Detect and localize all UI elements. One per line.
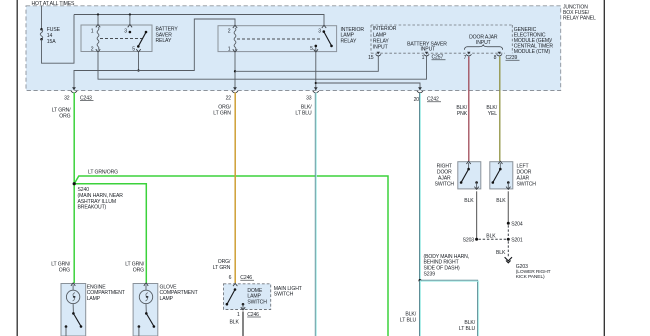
svg-text:15: 15 — [368, 55, 374, 61]
svg-text:LT GRN/ORG: LT GRN/ORG — [88, 169, 118, 175]
K1 pin 1 — [96, 25, 100, 28]
svg-text:BLK: BLK — [464, 198, 474, 204]
svg-text:1: 1 — [422, 55, 425, 61]
K1 pin 2 — [96, 49, 100, 52]
svg-text:INTERIOR: INTERIOR — [373, 26, 397, 32]
svg-text:BLK: BLK — [496, 198, 506, 204]
svg-text:LAMP: LAMP — [160, 296, 174, 302]
svg-text:S203: S203 — [463, 237, 475, 243]
svg-text:INPUT: INPUT — [373, 45, 388, 51]
junction dot: bus / K1 pin 3 — [129, 13, 131, 15]
wire: K1 pin 5 down — [138, 52, 140, 71]
left door ajar switch top pin — [498, 161, 502, 164]
junction dot: bus / K1 pin 1 — [97, 13, 99, 15]
svg-text:(LOWER RIGHT: (LOWER RIGHT — [516, 269, 551, 275]
svg-text:S204: S204 — [511, 221, 523, 227]
svg-text:MODULE (CTM): MODULE (CTM) — [514, 49, 551, 55]
svg-text:ORG: ORG — [59, 113, 70, 119]
svg-text:3: 3 — [124, 28, 127, 34]
wire: ORG/LT GRN from connector 22 to dome lamp switch — [234, 93, 236, 284]
connector pin 22 — [233, 87, 237, 90]
K2 switch blade — [324, 32, 332, 46]
K1 pin 3 — [128, 25, 132, 28]
GEM pin 1 — [425, 52, 428, 55]
svg-text:BLK: BLK — [230, 319, 240, 325]
svg-text:5: 5 — [310, 46, 313, 52]
K2 pin 2 — [233, 25, 237, 28]
wire: S240 branch to interior lamps feed (LT GRN/ORG) — [74, 176, 388, 336]
svg-text:SWITCH: SWITCH — [247, 299, 267, 305]
svg-text:PNK: PNK — [457, 111, 468, 117]
relay K1 battery saver relay box — [81, 25, 152, 52]
GEM pin 7 — [467, 52, 470, 55]
svg-text:RELAY: RELAY — [373, 38, 389, 44]
svg-text:1: 1 — [91, 28, 94, 34]
GEM boundary dashed bottom — [371, 52, 505, 54]
left door ajar switch contacts — [499, 163, 501, 169]
GEM boundary dashed right — [511, 25, 513, 53]
svg-text:LT GRN: LT GRN — [213, 265, 231, 271]
GEM pin 15 — [377, 52, 380, 55]
K2 pin 1 — [233, 49, 237, 52]
splice S204 — [507, 222, 510, 225]
K1 pin 5 — [136, 49, 140, 52]
svg-text:15A: 15A — [47, 39, 56, 45]
svg-text:22: 22 — [226, 95, 232, 101]
wire: hot feed to fuse 14 — [41, 6, 43, 30]
wire: BLK/PNK from GEM pin 7 to right door ajar switch — [468, 57, 470, 162]
svg-text:2: 2 — [91, 46, 94, 52]
left door ajar switch bottom pin — [506, 187, 510, 190]
svg-text:SWITCH: SWITCH — [517, 181, 537, 187]
splice S239 — [419, 279, 422, 282]
svg-text:33: 33 — [306, 95, 312, 101]
svg-text:8: 8 — [494, 55, 497, 61]
svg-text:2: 2 — [228, 29, 231, 35]
svg-text:SWITCH: SWITCH — [435, 181, 455, 187]
wire: BLK left switch to S204 — [507, 191, 509, 222]
glove compartment lamp box — [133, 284, 158, 336]
svg-text:20: 20 — [414, 97, 420, 103]
splice S201 — [507, 238, 510, 241]
connector pin 20 (C242) — [418, 87, 422, 90]
K1 switch blade — [138, 32, 146, 46]
wire: K1 pin 2 to GEM battery saver input (pin 1 C257) — [98, 52, 427, 80]
wire: BLK/LT BLU from connector 33 — [314, 93, 316, 336]
wire: S201 to ground G203 (dashed BLK) — [507, 241, 509, 257]
wire: BLK from dome lamp switch — [242, 312, 244, 336]
svg-text:LAMP: LAMP — [373, 32, 387, 38]
svg-text:KICK PANEL): KICK PANEL) — [516, 274, 545, 280]
K2 pin 3 — [322, 25, 326, 28]
junction box panel (light blue area) — [26, 6, 561, 91]
svg-text:14: 14 — [47, 33, 53, 39]
svg-text:YEL: YEL — [488, 111, 498, 117]
right door ajar switch box — [458, 162, 481, 189]
wire: S239 right branch (BLK/LT BLU) — [420, 280, 478, 336]
engine lamp switch — [72, 304, 74, 313]
junction dot: K1 pin5 / battery saver output net — [137, 69, 139, 71]
junction dot: K2 pin1 / GEM pin15 net — [234, 70, 236, 72]
wire: battery saver output net (conn 32 to K2 pin 2) — [74, 19, 235, 90]
K1 fixed contact (pin 3) — [129, 31, 132, 34]
svg-text:32: 32 — [64, 95, 70, 101]
glove lamp switch — [145, 304, 147, 313]
wire: fuse output to hot bus — [42, 15, 75, 64]
wire: S203 to S201 (dashed) — [479, 238, 507, 240]
svg-text:RELAY PANEL: RELAY PANEL — [563, 15, 596, 21]
wire: S239 down (BLK/LT BLU) — [419, 281, 421, 336]
dome lamp switch SW1 — [234, 288, 237, 291]
pin 1 (C246) — [241, 307, 245, 310]
svg-text:G203: G203 — [516, 264, 528, 270]
relay K2 interior lamp relay box — [218, 26, 337, 52]
right door ajar switch bottom pin — [474, 187, 478, 190]
svg-text:3: 3 — [318, 29, 321, 35]
wire: bus to K1 pin 3 — [129, 15, 131, 26]
engine lamp pin — [71, 283, 75, 286]
K1 linkage (dashed) — [100, 38, 143, 40]
door ajar input bracket — [465, 45, 503, 50]
engine compartment lamp box — [61, 284, 86, 336]
page border left — [16, 0, 18, 336]
svg-text:SWITCH: SWITCH — [274, 292, 294, 298]
svg-text:BLK: BLK — [486, 234, 496, 240]
svg-text:ORG: ORG — [133, 268, 144, 274]
svg-text:LT GRN: LT GRN — [213, 110, 231, 116]
svg-text:LT BLU: LT BLU — [459, 326, 476, 332]
junction dot: K2 pin5 / connector 20 net — [315, 82, 317, 84]
svg-text:RELAY: RELAY — [156, 38, 172, 44]
K1 coil — [97, 27, 99, 49]
GEM boundary dashed top — [371, 24, 512, 26]
connector pin 33 — [314, 87, 318, 90]
pin 6 (C246) — [233, 283, 237, 286]
svg-text:RELAY: RELAY — [341, 38, 357, 44]
svg-text:BREAKOUT): BREAKOUT) — [78, 205, 107, 211]
svg-text:1: 1 — [237, 312, 240, 318]
wire: hot bus to relay K2 pin 3 — [74, 15, 324, 26]
svg-text:7: 7 — [464, 55, 467, 61]
splice S203 — [475, 238, 478, 241]
svg-text:ORG: ORG — [59, 268, 70, 274]
svg-text:6: 6 — [229, 275, 232, 281]
GEM boundary dashed left — [370, 25, 372, 53]
GEM pin 8 — [498, 52, 501, 55]
main light switch dashed box — [224, 284, 271, 310]
wire: K2 pin5 net to connector 20 — [316, 83, 420, 90]
wire: BLK/YEL from GEM pin 8 to left door ajar switch — [499, 57, 501, 162]
wire: bus to K1 pin 1 — [97, 15, 99, 26]
connector pin 32 (C243) — [72, 87, 76, 90]
svg-text:LT BLU: LT BLU — [400, 318, 417, 324]
svg-text:S239: S239 — [424, 272, 436, 278]
wire: K2 pin1 net to GEM pin 15 — [235, 56, 378, 72]
K2 pin 5 contact stub — [315, 46, 317, 51]
wire: K2 pin 1 to connector 22 — [234, 52, 236, 91]
svg-text:5: 5 — [132, 46, 135, 52]
svg-text:1: 1 — [228, 47, 231, 53]
wire: LT GRN/ORG from connector 32 — [73, 93, 75, 284]
wire: BLK/LT BLU from connector 20 to S239 — [419, 93, 421, 281]
svg-text:LAMP: LAMP — [87, 296, 101, 302]
wire: K2 pin 5 to connector 33 — [315, 52, 317, 91]
page border right — [603, 0, 605, 336]
left door ajar switch box — [490, 162, 513, 189]
K2 coil — [234, 28, 236, 50]
right door ajar switch top pin — [466, 161, 470, 164]
splice S240 — [73, 182, 76, 185]
svg-text:FUSE: FUSE — [47, 27, 61, 33]
K2 pin 5 — [314, 49, 318, 52]
K2 linkage (dashed) — [237, 38, 320, 40]
svg-text:S201: S201 — [511, 237, 523, 243]
ground G203 — [505, 257, 512, 261]
right door ajar switch contacts — [468, 163, 470, 169]
wire: S240 branch to glove compartment lamp — [74, 184, 146, 283]
svg-text:LT BLU: LT BLU — [295, 110, 312, 116]
glove lamp pin — [144, 283, 148, 286]
wire: S204 to S201 (dashed) — [507, 225, 509, 237]
engine lamp bulb E1 — [72, 285, 74, 290]
fuse 14 15A — [40, 28, 43, 31]
svg-text:BLK: BLK — [496, 250, 506, 256]
svg-text:HOT AT ALL TIMES: HOT AT ALL TIMES — [32, 1, 76, 7]
K2 fixed contact (pin 3) — [323, 30, 326, 33]
wire: BLK right switch to S203 — [476, 191, 478, 238]
glove lamp bulb E2 — [145, 285, 147, 290]
